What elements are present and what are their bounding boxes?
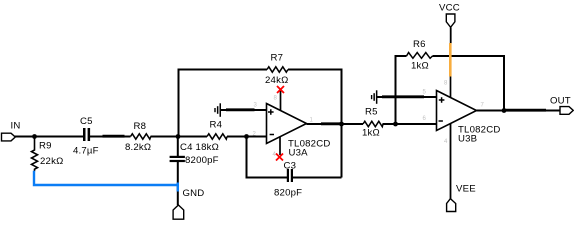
- svg-text:GND: GND: [183, 188, 205, 199]
- U3B V+ pin stub: [450, 77, 452, 98]
- wire feedback loop R6: [396, 56, 505, 124]
- wire U3A inverting input: [247, 136, 267, 138]
- svg-text:8: 8: [444, 81, 448, 87]
- svg-text:5: 5: [423, 90, 427, 96]
- resistor R5: [362, 107, 383, 139]
- svg-text:C5: C5: [80, 116, 93, 127]
- wire main input line segments: [15, 136, 267, 138]
- svg-text:3: 3: [254, 103, 258, 109]
- resistor R7: [265, 53, 288, 87]
- node junction R8/C4/R7: [176, 134, 181, 139]
- svg-text:R6: R6: [413, 39, 426, 50]
- svg-text:2: 2: [253, 132, 257, 138]
- svg-text:1kΩ: 1kΩ: [362, 128, 380, 139]
- terminal OUT: [550, 96, 573, 115]
- capacitor C3: [274, 161, 302, 199]
- U3B V- pin stub / wire to VEE: [450, 124, 452, 199]
- svg-text:4: 4: [444, 139, 448, 145]
- svg-text:OUT: OUT: [550, 96, 571, 107]
- capacitor C5: [73, 116, 99, 157]
- resistor R4: [207, 120, 227, 140]
- svg-text:24kΩ: 24kΩ: [265, 75, 288, 86]
- svg-text:IN: IN: [11, 121, 21, 132]
- U3A V- pin stub: [279, 137, 281, 155]
- op-amp U3A: [253, 96, 331, 159]
- svg-text:1: 1: [310, 118, 314, 124]
- svg-text:8: 8: [274, 96, 278, 102]
- wire thick overlay segments: [103, 97, 547, 136]
- node junction output/R6: [502, 108, 507, 113]
- op-amp U3B: [423, 81, 501, 146]
- svg-text:8200pF: 8200pF: [185, 155, 219, 166]
- svg-text:U3B: U3B: [458, 134, 477, 145]
- resistor R8: [125, 121, 151, 153]
- wire ground return (highlighted blue): [34, 171, 178, 192]
- node junction R5/R6: [393, 122, 398, 127]
- svg-text:820pF: 820pF: [274, 187, 302, 198]
- no-connect X at U3A pin 4: [276, 154, 283, 161]
- terminal VCC: [439, 3, 460, 28]
- svg-text:4: 4: [273, 152, 277, 158]
- ground symbol at U3B + input: [371, 90, 437, 104]
- node junction output/feedback: [339, 122, 344, 127]
- svg-text:R8: R8: [134, 121, 147, 132]
- svg-text:C3: C3: [284, 161, 297, 172]
- U3A V+ pin stub: [280, 91, 282, 111]
- svg-text:R5: R5: [365, 107, 378, 118]
- svg-text:R9: R9: [39, 141, 52, 152]
- terminal VEE: [447, 184, 476, 212]
- wire C3 branch: [247, 137, 342, 178]
- node junction R4/C3: [244, 134, 249, 139]
- wire U3A output: [307, 123, 438, 125]
- terminal IN: [2, 121, 21, 141]
- svg-text:6: 6: [423, 116, 427, 122]
- svg-text:VEE: VEE: [456, 184, 476, 195]
- capacitor C4: [170, 137, 219, 205]
- wire VCC highlighted segment: [449, 43, 452, 77]
- wire U3B output: [477, 110, 561, 112]
- no-connect X at U3A pin 8: [277, 86, 284, 93]
- resistor R9: [32, 137, 64, 171]
- wire VCC to U3B pin 8: [450, 28, 452, 44]
- svg-text:7: 7: [481, 103, 485, 109]
- svg-text:1kΩ: 1kΩ: [411, 61, 429, 72]
- svg-text:22kΩ: 22kΩ: [40, 156, 63, 167]
- svg-text:4.7µF: 4.7µF: [73, 146, 99, 157]
- svg-text:R7: R7: [271, 53, 284, 64]
- ground symbol at U3A + input: [214, 103, 266, 117]
- wire feedback loop R7: [179, 70, 342, 178]
- terminal GND: [173, 188, 204, 219]
- svg-text:8.2kΩ: 8.2kΩ: [125, 142, 151, 153]
- svg-text:C4 18kΩ: C4 18kΩ: [180, 142, 219, 153]
- svg-text:R4: R4: [210, 120, 223, 131]
- node junction at R9: [32, 134, 37, 139]
- svg-text:U3A: U3A: [289, 148, 309, 159]
- svg-text:VCC: VCC: [439, 3, 460, 14]
- resistor R6: [407, 39, 433, 72]
